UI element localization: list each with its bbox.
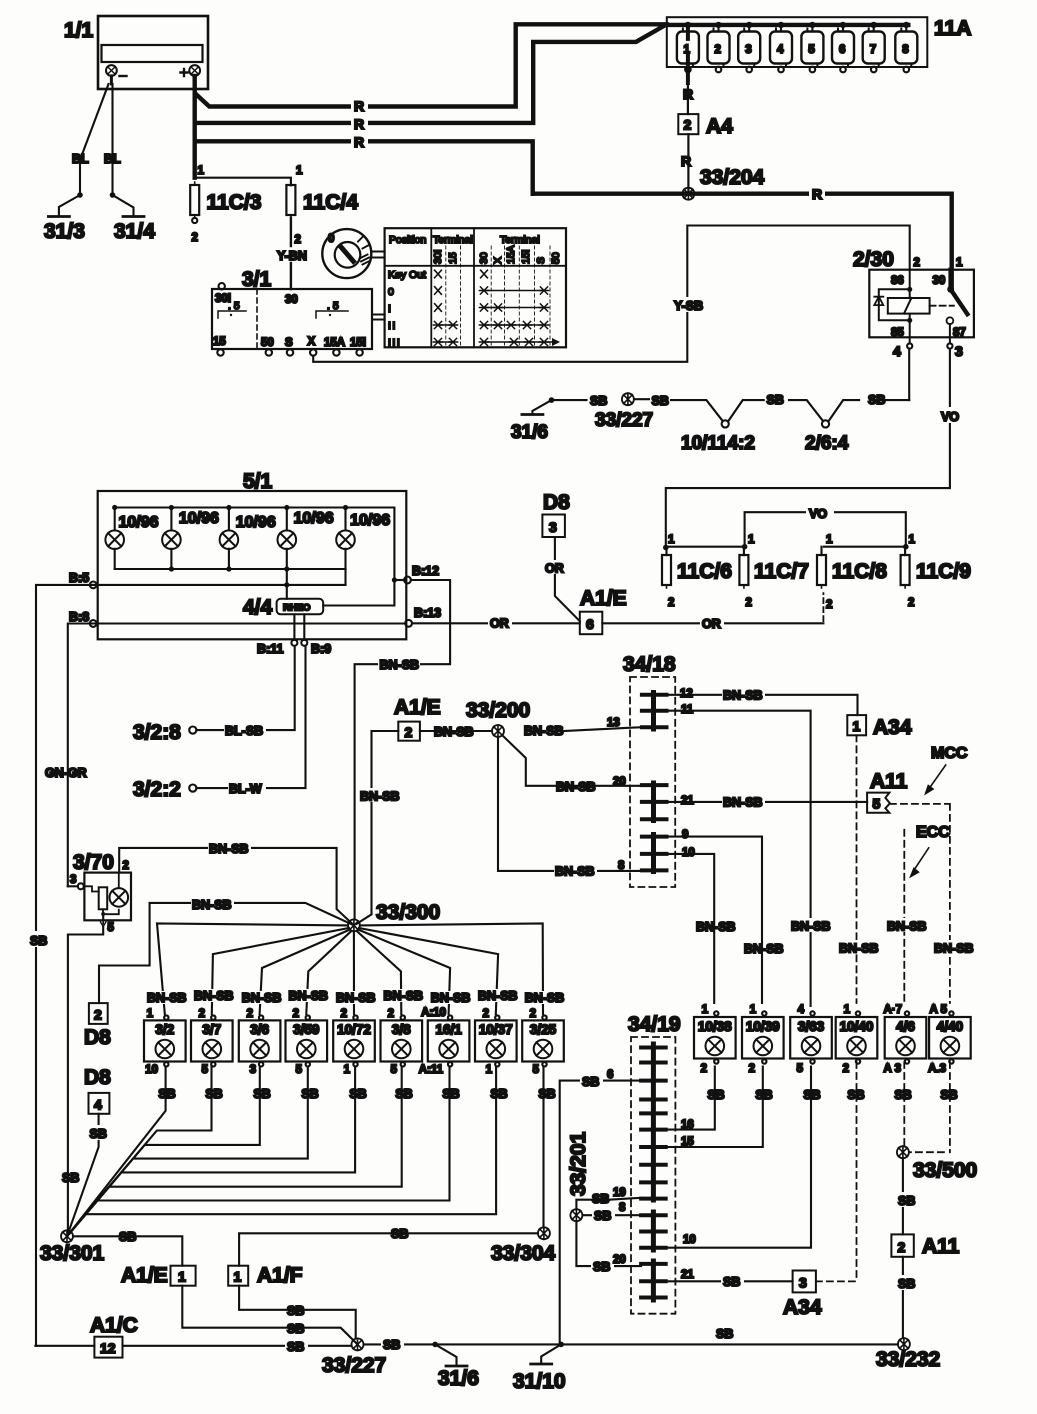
- svg-text:OR: OR: [545, 562, 564, 576]
- svg-text:10/96: 10/96: [350, 512, 390, 529]
- svg-text:11C/8: 11C/8: [832, 560, 887, 583]
- svg-text:2: 2: [293, 1008, 299, 1020]
- svg-text:1: 1: [198, 165, 205, 177]
- table marks row II: [433, 321, 548, 328]
- 34/18 pin bar group 1: [642, 693, 667, 730]
- svg-text:SB: SB: [253, 1087, 270, 1101]
- wire to ground 31/10: [541, 1344, 561, 1363]
- relay 2/30 box: [869, 270, 974, 338]
- 3/70 resistor: [84, 886, 107, 909]
- svg-text:SB: SB: [707, 1088, 724, 1102]
- label BN-SB 3/25: [524, 991, 566, 1005]
- label Y-SB: [673, 297, 703, 313]
- dashed MCC boundary from A11-5: [890, 804, 950, 1003]
- wire 33/201 to pin20: [576, 1221, 641, 1266]
- svg-text:5: 5: [533, 1064, 540, 1076]
- svg-text:50: 50: [261, 337, 274, 349]
- svg-text:1: 1: [748, 534, 755, 546]
- label BL-W: [228, 780, 266, 796]
- dashed ECC boundary: [903, 830, 905, 1003]
- svg-text:2: 2: [94, 1007, 102, 1023]
- svg-text:2: 2: [908, 597, 914, 609]
- svg-text:BN-SB: BN-SB: [524, 724, 564, 738]
- lamp 3/2: [144, 1015, 186, 1066]
- fuse 8: [895, 25, 917, 72]
- label OR: [700, 615, 724, 631]
- svg-text:5/1: 5/1: [243, 470, 273, 493]
- svg-text:BN-SB: BN-SB: [555, 865, 595, 879]
- svg-text:2: 2: [341, 1008, 347, 1020]
- wire SB 16/1 staircase: [67, 1067, 450, 1237]
- svg-text:SB: SB: [755, 1088, 772, 1102]
- svg-text:B:11: B:11: [257, 642, 283, 656]
- connector D8 pin4 box: [89, 1093, 110, 1114]
- wire bus drop to B:5 line: [344, 569, 346, 585]
- svg-text:1: 1: [178, 1269, 186, 1285]
- label SB on GN-GR line: [60, 1169, 82, 1185]
- wire B:8 GN-GR vertical to 3/70 pin3: [68, 624, 93, 887]
- svg-text:2: 2: [530, 1008, 536, 1020]
- connector 34/19 dashed housing: [631, 1037, 675, 1314]
- fuse group VO bus: [745, 512, 906, 547]
- wire to ground 31/3: [59, 195, 80, 216]
- svg-text:6: 6: [839, 44, 845, 56]
- relay diode: [874, 297, 883, 305]
- svg-text:4: 4: [777, 44, 784, 56]
- lamp 10/38: [694, 1011, 736, 1063]
- wire to ground 31/4: [113, 195, 134, 216]
- svg-text:A1/E: A1/E: [394, 696, 441, 719]
- svg-text:2: 2: [405, 724, 413, 740]
- label BN-SB 3/59: [287, 989, 329, 1003]
- svg-text:R: R: [812, 186, 822, 202]
- relay dashed actuator link: [930, 305, 954, 307]
- label BN-SB 16/1: [429, 991, 471, 1005]
- svg-text:10: 10: [145, 1064, 158, 1076]
- label BN-SB: [208, 840, 251, 856]
- svg-text:R: R: [354, 134, 364, 150]
- svg-text:BN-SB: BN-SB: [360, 790, 400, 804]
- svg-text:SB: SB: [301, 1087, 318, 1101]
- wire A1/E-2 left down to 33/300: [357, 731, 399, 924]
- label BN-SB: [378, 657, 420, 672]
- wire A4 to splice 33/204: [687, 134, 689, 194]
- svg-text:RHEO: RHEO: [283, 603, 310, 614]
- svg-text:10/96: 10/96: [294, 510, 334, 527]
- dashed wire A34-3 to 10/40 branch: [816, 1280, 857, 1282]
- label OR: [543, 560, 566, 576]
- label R: [351, 134, 368, 150]
- svg-text:3: 3: [955, 343, 963, 359]
- svg-text:2/6:4: 2/6:4: [805, 433, 849, 454]
- svg-text:BN-SB: BN-SB: [744, 942, 784, 956]
- svg-text:SB: SB: [652, 394, 669, 408]
- svg-text:SB: SB: [287, 1304, 304, 1318]
- svg-text:X: X: [308, 336, 316, 348]
- 3/70 pin 3: [70, 874, 84, 889]
- svg-text:10/96: 10/96: [119, 514, 159, 531]
- svg-text:1: 1: [234, 1269, 242, 1285]
- svg-text:3/2:2: 3/2:2: [133, 778, 181, 801]
- label BN-SB: [722, 794, 765, 810]
- svg-text:BN-SB: BN-SB: [384, 989, 424, 1003]
- fan wire 33/300 to 3/59: [306, 931, 351, 1014]
- wire SB 3/59 staircase: [67, 1067, 308, 1237]
- fuse 7: [863, 25, 885, 72]
- label VO: [806, 504, 834, 521]
- svg-text:BN-SB: BN-SB: [723, 796, 763, 810]
- svg-text:2: 2: [914, 257, 920, 269]
- svg-text:A 5: A 5: [930, 1004, 948, 1016]
- svg-text:BN-SB: BN-SB: [209, 842, 249, 856]
- label GN-GR: [44, 764, 92, 780]
- rheostat 4/4 RHEO: [277, 599, 324, 615]
- splice 33/300: [348, 919, 360, 931]
- svg-text:31/10: 31/10: [513, 1370, 566, 1393]
- wire and dip connector 2/6:4: [789, 400, 859, 427]
- label BN-SB 10/40 col: [838, 940, 881, 956]
- fuse 1: [677, 25, 699, 83]
- connector A4 pin 2 box: [678, 114, 698, 134]
- svg-text:BN-SB: BN-SB: [887, 920, 927, 934]
- splice 33/204: [682, 188, 694, 200]
- svg-text:0: 0: [328, 233, 334, 245]
- fuse 11C/4: [286, 182, 295, 218]
- connector 34/18 dashed housing: [630, 677, 675, 887]
- fuse 2: [708, 25, 730, 72]
- svg-text:33/500: 33/500: [913, 1159, 977, 1182]
- top bus dots: [112, 505, 348, 510]
- svg-text:15I: 15I: [520, 249, 532, 264]
- 34/18 pin bar group 2: [642, 783, 667, 821]
- svg-text:2: 2: [199, 1008, 205, 1020]
- svg-text:SB: SB: [894, 1088, 911, 1102]
- svg-text:2: 2: [388, 1008, 394, 1020]
- svg-text:X: X: [492, 257, 504, 264]
- svg-text:III: III: [388, 337, 401, 349]
- svg-text:10/96: 10/96: [179, 510, 219, 527]
- svg-text:2: 2: [123, 860, 129, 872]
- splice 33/301: [61, 1230, 73, 1242]
- svg-text:1: 1: [750, 1004, 757, 1016]
- svg-text:3/2:8: 3/2:8: [133, 721, 181, 744]
- label SB: [592, 1208, 615, 1223]
- svg-text:1: 1: [909, 534, 916, 546]
- svg-text:5: 5: [797, 1063, 804, 1075]
- connector A1/C pin12 box: [94, 1337, 122, 1358]
- terminal circle B:13: [405, 620, 412, 627]
- 3/70 pin 5: [101, 914, 115, 934]
- wire pin10 down to 10/38: [667, 854, 715, 1003]
- ignition bracket .5 left: [218, 300, 246, 318]
- wire pin12 BN-SB to A34-1: [667, 695, 858, 715]
- svg-text:B:5: B:5: [69, 571, 89, 585]
- svg-text:2: 2: [684, 117, 692, 133]
- svg-text:33/300: 33/300: [376, 901, 440, 924]
- 34/19 pin bar segment B: [641, 1212, 666, 1250]
- splice 33/227 upper: [622, 393, 634, 405]
- svg-text:2: 2: [898, 1239, 906, 1255]
- node dot B:12 junction: [392, 577, 397, 582]
- svg-text:SB: SB: [383, 1338, 400, 1352]
- bus node dots: [685, 22, 910, 28]
- svg-text:D8: D8: [543, 491, 570, 514]
- svg-text:11C/6: 11C/6: [677, 560, 732, 583]
- svg-text:15A: 15A: [505, 245, 517, 264]
- label BN-SB 3/8: [382, 989, 424, 1003]
- svg-text:MCC: MCC: [931, 745, 968, 762]
- svg-text:85: 85: [891, 327, 904, 339]
- svg-text:8: 8: [902, 44, 909, 56]
- svg-text:8: 8: [619, 1202, 626, 1214]
- wire B:5 line: [93, 584, 345, 586]
- svg-text:Y-SB: Y-SB: [674, 299, 703, 313]
- splice 33/201: [570, 1209, 582, 1221]
- svg-text:BN-SB: BN-SB: [839, 942, 879, 956]
- svg-text:31/6: 31/6: [438, 1367, 479, 1390]
- svg-text:31/6: 31/6: [511, 422, 548, 443]
- wire 33/200 down to pin8: [498, 737, 642, 871]
- ignition bottom terminal circles: [217, 349, 362, 355]
- dashed wire 4/6 down to 33/500: [903, 1062, 905, 1146]
- fan wire 33/300 to 10/72: [353, 931, 355, 1014]
- lamp panel 5/1 box: [98, 491, 407, 639]
- svg-text:0: 0: [388, 286, 394, 298]
- svg-text:4/6: 4/6: [896, 1019, 915, 1034]
- svg-text:GN-GR: GN-GR: [45, 766, 87, 780]
- svg-text:3/25: 3/25: [530, 1022, 557, 1037]
- lamp 3/7: [191, 1015, 233, 1066]
- connector A11 pin5 box: [867, 793, 890, 813]
- wire OR A1/E-6 to 11C/8: [602, 622, 823, 624]
- svg-text:BL-W: BL-W: [229, 782, 262, 796]
- svg-text:4: 4: [94, 1097, 102, 1113]
- connector A34 pin1 box: [847, 715, 866, 735]
- svg-text:BL: BL: [72, 152, 89, 166]
- svg-text:A11: A11: [870, 770, 908, 793]
- label BN-SB 3/2: [146, 991, 188, 1005]
- svg-text:SB: SB: [594, 1209, 611, 1223]
- svg-text:20: 20: [613, 1254, 626, 1266]
- svg-text:SB: SB: [490, 1087, 507, 1101]
- wire B:12 BN-SB down to 33/300: [355, 580, 451, 920]
- table marks row III: [433, 338, 560, 346]
- svg-text:SB: SB: [538, 1087, 555, 1101]
- svg-text:2: 2: [843, 1063, 849, 1075]
- svg-text:1/1: 1/1: [64, 19, 94, 42]
- 34/18 pin bar group 3: [642, 835, 667, 872]
- dashed link OR line to 11C/8 pin2: [822, 593, 824, 621]
- connector A1/E pin2 box: [398, 722, 420, 741]
- svg-text:BN-SB: BN-SB: [696, 920, 736, 934]
- svg-text:50: 50: [550, 252, 562, 264]
- wire SB 3/6 staircase: [67, 1067, 260, 1237]
- svg-text:4/40: 4/40: [937, 1019, 963, 1034]
- fuse 11C/6: [662, 548, 674, 610]
- connector A1/E pin1 box: [171, 1266, 196, 1286]
- relay coil circuit: [879, 270, 930, 338]
- svg-text:A:11: A:11: [419, 1064, 444, 1076]
- svg-text:SB: SB: [898, 1194, 915, 1208]
- svg-text:BN-SB: BN-SB: [934, 942, 974, 956]
- svg-text:A:10: A:10: [421, 1007, 446, 1019]
- wire to ground 31/6: [435, 1344, 456, 1365]
- fuse box bus wire: [667, 23, 909, 27]
- relay pin stubs: [907, 337, 952, 348]
- svg-text:86: 86: [891, 275, 904, 287]
- svg-text:34/19: 34/19: [628, 1013, 681, 1036]
- svg-text:33/227: 33/227: [322, 1354, 386, 1377]
- ignition bracket .5 right: [316, 300, 348, 318]
- wire 3/63 SB to pin10: [666, 1067, 811, 1248]
- svg-text:1: 1: [296, 165, 303, 177]
- svg-text:II: II: [388, 320, 397, 332]
- svg-text:I: I: [388, 303, 391, 315]
- svg-text:5: 5: [296, 1064, 303, 1076]
- table marks row 0: [435, 287, 549, 295]
- wire 33/201 to pin8: [583, 1214, 642, 1216]
- svg-text:11C/3: 11C/3: [207, 191, 262, 214]
- svg-text:11C/4: 11C/4: [303, 191, 358, 214]
- label BN-SB 4/6 col: [886, 918, 929, 934]
- svg-text:3/2: 3/2: [155, 1022, 174, 1037]
- svg-text:. 5: . 5: [228, 300, 240, 312]
- svg-text:Key Out: Key Out: [388, 269, 426, 281]
- svg-text:BL: BL: [104, 152, 121, 166]
- svg-text:SB: SB: [30, 934, 47, 948]
- fuse 4: [770, 25, 792, 72]
- splice 33/200: [492, 725, 504, 737]
- table marks row Key Out: [435, 270, 488, 278]
- wire Y-BN fuse 11C/4 to ignition 30: [290, 218, 292, 289]
- connector D8 pin2 box: [89, 1003, 108, 1024]
- svg-text:BN-SB: BN-SB: [525, 991, 565, 1005]
- svg-text:2: 2: [715, 44, 721, 56]
- wire 3/70 pin5 down to 33/301: [68, 927, 103, 1232]
- svg-text:R: R: [681, 153, 691, 169]
- wire SB 3/2 to 33/301: [67, 1067, 166, 1237]
- svg-text:2: 2: [192, 232, 198, 244]
- label SB: [285, 1338, 308, 1354]
- wire pin9 down to 10/39: [667, 837, 763, 1003]
- svg-text:B:9: B:9: [311, 642, 331, 656]
- lamp 4/40: [929, 1011, 971, 1063]
- svg-text:10/39: 10/39: [746, 1019, 780, 1034]
- lamp unit 3/70 box: [84, 873, 131, 921]
- svg-text:1: 1: [147, 1008, 154, 1020]
- terminal 3/2:8: [189, 646, 295, 734]
- svg-text:30: 30: [285, 294, 298, 306]
- svg-text:1: 1: [702, 1004, 709, 1016]
- label BL-SB: [224, 722, 266, 738]
- fuse 11C/3: [190, 182, 199, 218]
- label SB on D8-4 wire: [88, 1125, 111, 1141]
- svg-text:15: 15: [447, 252, 459, 264]
- svg-text:S: S: [535, 257, 547, 264]
- svg-text:3: 3: [250, 1064, 256, 1076]
- wire pin3 stub: [68, 885, 78, 887]
- svg-text:15: 15: [213, 336, 226, 348]
- fan wire 33/300 to 16/1: [358, 930, 450, 1015]
- fuse 5: [801, 25, 823, 72]
- svg-text:A34: A34: [873, 716, 912, 739]
- wire D8-3 down to OR junction: [555, 537, 580, 621]
- node dot 31/3 wire: [77, 192, 83, 198]
- lamp 16/1: [428, 1015, 470, 1066]
- svg-text:S: S: [285, 337, 293, 349]
- svg-text:16: 16: [681, 1119, 694, 1131]
- lamp 10/37: [475, 1015, 517, 1066]
- wire 3/70 pin2 BN-SB to 33/300: [119, 848, 354, 926]
- svg-text:1: 1: [668, 534, 675, 546]
- label BN-SB 3/7: [193, 989, 235, 1003]
- svg-text:SB: SB: [205, 1087, 222, 1101]
- svg-text:OR: OR: [702, 617, 721, 631]
- svg-text:OR: OR: [490, 617, 509, 631]
- svg-text:16/1: 16/1: [435, 1022, 462, 1037]
- connector D8 pin3 box: [542, 515, 565, 538]
- label VO: [939, 407, 963, 424]
- svg-text:10/96: 10/96: [236, 514, 276, 531]
- node dot 31/10 drop: [558, 1342, 564, 1348]
- wire pin6 SB down to ground line: [560, 1081, 641, 1346]
- svg-text:SB: SB: [62, 1171, 79, 1185]
- wire B:5 SB vertical to A1/C: [36, 585, 93, 1346]
- svg-text:34/18: 34/18: [623, 653, 676, 676]
- svg-text:2: 2: [295, 234, 301, 246]
- svg-text:BN-SB: BN-SB: [723, 689, 763, 703]
- svg-text:3/1: 3/1: [242, 268, 272, 291]
- svg-text:BN-SB: BN-SB: [192, 898, 232, 912]
- wire 33/304 to A1/F-1: [239, 1233, 538, 1265]
- svg-text:B:12: B:12: [412, 564, 439, 578]
- terminal circle B:8: [90, 620, 97, 627]
- svg-text:BN-SB: BN-SB: [380, 658, 420, 672]
- svg-text:SB: SB: [590, 394, 607, 408]
- wire pin21 BN-SB to A11-5: [667, 801, 868, 803]
- lamp 10/96 no4: [278, 508, 297, 570]
- ground 31/3: [48, 215, 69, 217]
- svg-text:2: 2: [247, 1008, 253, 1020]
- svg-text:4: 4: [798, 1004, 805, 1016]
- svg-text:4: 4: [893, 343, 901, 359]
- wire relay 87 VO down and to fuse group: [666, 349, 950, 548]
- rheostat pin B:9: [301, 614, 307, 646]
- label BN-SB: [722, 687, 765, 703]
- svg-text:B:13: B:13: [414, 606, 441, 620]
- svg-text:R: R: [354, 98, 364, 114]
- lamp 3/8: [381, 1015, 423, 1066]
- label BN-SB: [554, 863, 597, 879]
- dashed A34 branch down to 10/40: [856, 735, 858, 1003]
- svg-text:3/63: 3/63: [798, 1019, 825, 1034]
- svg-text:A34: A34: [783, 1296, 822, 1319]
- svg-text:Terminal: Terminal: [500, 234, 540, 246]
- lamp 10/72: [333, 1015, 375, 1066]
- arrow MCC: [926, 765, 946, 794]
- label BN-SB 4/40 col: [933, 940, 976, 956]
- svg-text:11C/7: 11C/7: [754, 560, 809, 583]
- battery minus sign: [120, 75, 127, 77]
- wire pin21 SB to A34-3: [666, 1280, 793, 1282]
- key to table connector stubs: [372, 252, 385, 258]
- wire SB 3/25 down to 33/304: [542, 1067, 544, 1228]
- svg-text:15: 15: [681, 1136, 694, 1148]
- fan wire 33/300 to 3/6: [260, 930, 350, 1015]
- dashed wire 10/40 lamp down to A34-3: [856, 1062, 858, 1281]
- wire A1/F-1 down to 33/227: [239, 1286, 356, 1339]
- label SB: [721, 1274, 744, 1289]
